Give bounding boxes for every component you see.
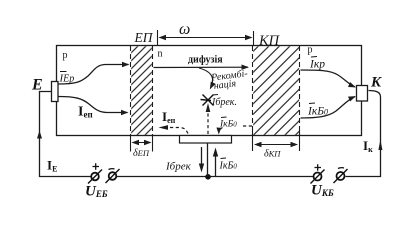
label I_kB0 (right side) with overline	[309, 102, 315, 105]
collector contact	[357, 86, 368, 102]
svg-text:δКП: δКП	[264, 149, 281, 160]
base width dimension w : left tick	[157, 30, 159, 46]
svg-text:Ікр: Ікр	[309, 59, 325, 71]
base node dot	[205, 174, 211, 180]
EP strip left dashed boundary	[130, 46, 132, 136]
svg-text:p: p	[308, 45, 313, 56]
diffusion arrow across base	[154, 66, 249, 68]
emitter electron current curve I_en (left)	[59, 97, 128, 113]
KP strip right dashed boundary	[299, 46, 301, 136]
label I_Kp with overline	[311, 56, 317, 59]
bottom wire middle segment	[117, 176, 314, 178]
U_KB terminal + circle	[314, 173, 322, 181]
svg-text:ЕП: ЕП	[134, 30, 154, 45]
KP strip left dashed boundary	[252, 46, 254, 136]
svg-text:ІкБ0: ІкБ0	[307, 106, 328, 118]
svg-text:ІкБ0: ІкБ0	[219, 120, 237, 130]
arrow up on collector lead	[378, 140, 382, 151]
svg-text:Ібрек: Ібрек	[165, 161, 192, 173]
svg-text:δЕП: δЕП	[133, 148, 150, 159]
U_KB terminal - circle	[337, 172, 345, 180]
dashed I_en return path into EP	[168, 128, 188, 134]
label I_b rec (at star) with overline	[213, 94, 219, 97]
emitter lead stub	[40, 92, 52, 177]
U_EB terminal + circle	[91, 173, 99, 181]
bottom wire right segment + collector lead	[346, 91, 381, 177]
delta_KP double arrow	[255, 144, 297, 146]
svg-text:ω: ω	[179, 21, 190, 38]
svg-text:n: n	[158, 49, 163, 60]
svg-text:дифузія: дифузія	[188, 55, 223, 66]
collector reverse current curve I_kB0	[301, 97, 356, 119]
delta_EP double arrow	[133, 142, 151, 144]
base lead	[207, 143, 209, 177]
I_kB0 arrow up (below bar)	[215, 155, 217, 176]
delta_EP dimension ticks	[130, 135, 132, 152]
label I_Ep with overline	[60, 71, 67, 73]
svg-text:ІЕр: ІЕр	[59, 73, 75, 85]
dashed base recombination current line up to star	[207, 112, 209, 134]
bottom wire left segment	[39, 176, 91, 178]
recombination swoop arrow	[199, 68, 213, 89]
base contact bar	[180, 136, 232, 144]
svg-text:Ібрек.: Ібрек.	[211, 97, 237, 108]
emitter contact	[52, 82, 59, 102]
recombination star X	[201, 95, 214, 106]
svg-text:ІкБ0: ІкБ0	[219, 161, 238, 172]
base width dimension w : right tick	[253, 31, 255, 46]
label I_kB0 below bar with overline	[221, 157, 227, 160]
U_EB terminal - circle	[109, 172, 117, 180]
collector junction KP hatched strip	[253, 46, 299, 135]
svg-text:K: K	[370, 75, 382, 91]
I_b rec arrow down (below bar)	[201, 147, 203, 165]
emitter junction EP hatched strip	[131, 46, 152, 135]
EP strip right dashed boundary	[152, 46, 154, 136]
main crystal box	[57, 46, 362, 136]
arrow up on emitter lead	[37, 131, 42, 139]
base width dimension w : double arrow	[160, 37, 252, 39]
delta_KP dimension ticks	[252, 131, 254, 151]
svg-text:p: p	[63, 50, 68, 61]
emitter hole current curve I_Ep	[59, 65, 129, 85]
dashed I_kB0 path from KP to base bar	[243, 125, 252, 127]
collector hole current curve I_Kp	[301, 70, 356, 87]
svg-text:КП: КП	[258, 33, 281, 49]
label I_kB0 (base, above bar) with overline	[221, 116, 227, 119]
label recombination (handwritten, two lines)	[210, 68, 250, 92]
